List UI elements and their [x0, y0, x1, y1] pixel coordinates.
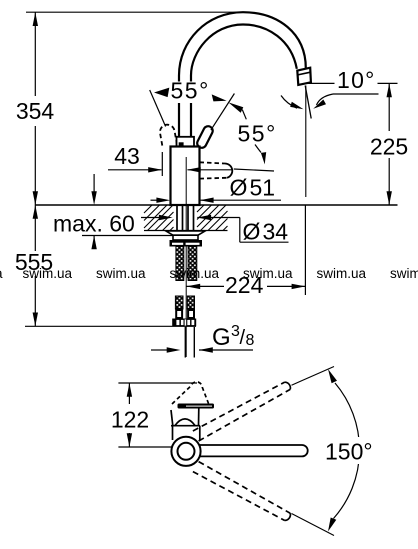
- 224 dimension: [186, 205, 305, 295]
- hose lower segment right: [187, 296, 194, 309]
- 225 dimension: [308, 83, 398, 205]
- svg-text:225: 225: [370, 134, 408, 160]
- supply pipe below fittings: [185, 327, 194, 358]
- diameter 34 dimension: [141, 218, 289, 243]
- top view body box: [171, 426, 200, 440]
- svg-text:150°: 150°: [325, 439, 373, 465]
- deck bottom line: [144, 230, 228, 232]
- hose lower segment left: [175, 296, 183, 309]
- solid lever axis extension: [211, 94, 235, 131]
- svg-text:8: 8: [246, 332, 255, 349]
- lowered lever axis extension: [234, 169, 274, 171]
- hose end crimp left: [176, 310, 182, 318]
- svg-text:10°: 10°: [337, 67, 376, 93]
- deck hatching right of shank: [197, 205, 228, 231]
- svg-text:55°: 55°: [171, 78, 210, 104]
- svg-text:swim.ua: swim.ua: [317, 266, 367, 281]
- 122 bottom tick: [118, 446, 171, 448]
- collar dark mark: [179, 142, 184, 146]
- 55 degree first label: [170, 82, 214, 104]
- svg-text:55°: 55°: [238, 121, 277, 147]
- max. 60 dimension: [82, 174, 173, 249]
- 55 degree first: arrow onto leg: [154, 88, 169, 98]
- dashed spout down-right: [193, 462, 334, 536]
- 150 degree arc: [334, 383, 360, 519]
- svg-text:swim.ua: swim.ua: [390, 266, 418, 281]
- hose upper segment left: [176, 247, 184, 281]
- centerline faucet axis: [185, 157, 187, 357]
- solid lever: [202, 131, 208, 143]
- shank block: [173, 235, 198, 240]
- dashed lever lowered position: [200, 162, 233, 178]
- bowtie arrows on lever axis: [212, 94, 227, 101]
- svg-text:51: 51: [250, 175, 276, 201]
- 354 dimension line: [34, 12, 36, 205]
- G 3/8 dimension: [151, 349, 253, 351]
- body: [171, 147, 200, 206]
- mounting nut: [170, 240, 203, 247]
- svg-text:Ø: Ø: [230, 175, 248, 201]
- svg-text:swim.ua: swim.ua: [170, 266, 220, 281]
- top tick line (354): [26, 11, 250, 13]
- 10 degree leader curves: [317, 94, 334, 105]
- hose end crimp right: [188, 310, 194, 318]
- svg-text:max. 60: max. 60: [53, 211, 135, 237]
- diameter 51 dimension: [151, 199, 282, 201]
- svg-text:swim.ua: swim.ua: [23, 266, 73, 281]
- dashed spout up-right: [193, 367, 334, 442]
- 122 dimension line: [128, 383, 130, 447]
- shank tube below deck: [177, 205, 194, 231]
- svg-text:43: 43: [114, 143, 140, 169]
- swivel circles: [171, 437, 200, 466]
- svg-text:122: 122: [111, 407, 149, 433]
- top view lever paddle bar: [178, 404, 215, 409]
- 55 degree second arrow down: [255, 145, 261, 153]
- svg-text:swim.ua: swim.ua: [243, 266, 293, 281]
- 225 label: [368, 133, 412, 157]
- svg-text:G: G: [212, 324, 231, 351]
- 10 degree shelf line: [333, 93, 379, 95]
- dashed lever up-left position: [160, 125, 177, 148]
- spout tube: [179, 12, 306, 137]
- solid spout plan capsule: [188, 445, 308, 456]
- water stream vertical reference line: [305, 86, 307, 198]
- mounting flange washer: [166, 231, 205, 235]
- water stream tilted line: [305, 86, 311, 119]
- svg-text:354: 354: [16, 98, 55, 124]
- svg-text:Ø: Ø: [243, 219, 261, 245]
- svg-text:34: 34: [263, 219, 289, 245]
- 555 label: [13, 252, 57, 274]
- 43 dimension: [108, 152, 233, 176]
- 555 bottom tick line: [25, 325, 196, 327]
- fitting nuts band: [172, 319, 196, 327]
- 55 degree first: dashed lever axis extension: [150, 90, 166, 127]
- centerline inside body: [185, 157, 187, 205]
- 150 degree label: [322, 437, 376, 464]
- 555 dimension line: [34, 205, 36, 326]
- 354 label: [13, 98, 57, 123]
- hose upper segment right: [188, 247, 197, 281]
- top view lever dashed tip: [172, 382, 209, 404]
- collar: [177, 137, 195, 147]
- countertop surface line: [35, 204, 397, 206]
- aerator: [297, 68, 311, 85]
- top view lever neck: [171, 409, 199, 426]
- 122 top tick: [118, 382, 197, 384]
- deck hatching left of shank: [144, 205, 174, 231]
- svg-text:swim.ua: swim.ua: [96, 266, 146, 281]
